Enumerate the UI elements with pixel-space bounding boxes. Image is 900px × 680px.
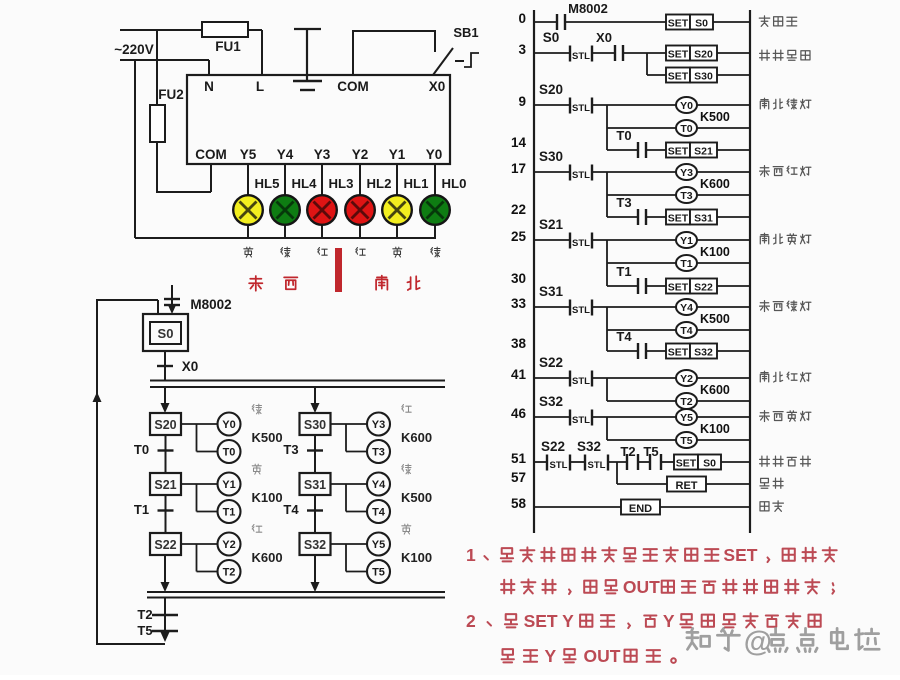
wire: HL1 lamp leads (396, 164, 398, 238)
svg-text:HL3: HL3 (329, 176, 354, 191)
value label K500 (700, 312, 730, 326)
STL contact S32 (merge) (570, 439, 608, 471)
node step number 0 (518, 11, 526, 26)
wire: ladder left power rail (533, 10, 535, 533)
lamp HL5 (233, 176, 279, 225)
lamp HL0 (420, 176, 466, 225)
svg-text:S32: S32 (694, 347, 713, 359)
svg-text:X0: X0 (182, 359, 199, 374)
net comment 东西黄灯 (760, 411, 811, 422)
pin L (256, 79, 264, 94)
svg-text:Y2: Y2 (680, 373, 693, 385)
svg-text:T1: T1 (680, 258, 692, 270)
coil Y2 (218, 533, 241, 556)
svg-text:Y: Y (545, 646, 557, 666)
svg-text:T4: T4 (680, 325, 692, 337)
svg-text:58: 58 (511, 496, 527, 511)
svg-text:S0: S0 (158, 326, 174, 341)
net comment 南北红灯 (760, 371, 811, 382)
svg-text:SET: SET (723, 545, 757, 565)
svg-text:K100: K100 (700, 422, 730, 436)
coil T5 (676, 432, 750, 448)
svg-text:M8002: M8002 (568, 1, 608, 16)
svg-text:T2: T2 (223, 567, 236, 579)
svg-text:X0: X0 (429, 79, 446, 94)
wire: branch for timer (607, 240, 676, 286)
svg-text:9: 9 (518, 94, 526, 109)
coil T2 (218, 560, 241, 583)
SET S32 instruction box (666, 344, 750, 359)
label South-North (376, 276, 387, 290)
wire: S31 action branch (331, 484, 368, 512)
svg-text:SET: SET (668, 213, 689, 225)
svg-text:K600: K600 (700, 177, 730, 191)
svg-text:25: 25 (511, 229, 527, 244)
svg-text:~220V: ~220V (114, 42, 153, 57)
svg-text:Y: Y (663, 611, 675, 631)
net comment 南北黄灯 (760, 233, 811, 244)
svg-text:Y0: Y0 (680, 100, 693, 112)
SET S22 instruction box (666, 279, 750, 294)
svg-text:S20: S20 (539, 82, 563, 97)
wire: branch to SET S30 (647, 53, 666, 75)
wire: branch to RET (617, 462, 667, 484)
svg-text:T2: T2 (680, 396, 692, 408)
red divider bar (335, 248, 342, 292)
transition T0 (134, 435, 174, 473)
END instruction box (534, 500, 750, 516)
wire: S30 action branch (331, 424, 368, 452)
transition X0 (157, 351, 198, 380)
value label 黄 (lamp colour) (244, 247, 253, 257)
svg-text:HL2: HL2 (367, 176, 392, 191)
node step number 33 (511, 296, 527, 311)
svg-text:S22: S22 (694, 282, 713, 294)
wire: branch from L1 down to fuse FU2 and to COM (157, 30, 211, 193)
contact T5 (638, 444, 674, 470)
note line 3 (488, 613, 821, 628)
note line 2 (501, 579, 834, 594)
svg-text:T5: T5 (137, 623, 152, 638)
junction: merge arrow to return loop (161, 632, 170, 642)
svg-text:STL: STL (572, 103, 590, 114)
value label 绿 (lamp colour) (431, 247, 440, 257)
svg-text:STL: STL (572, 376, 590, 387)
colour label (252, 464, 261, 474)
svg-text:STL: STL (572, 238, 590, 249)
svg-text:T5: T5 (643, 444, 658, 459)
svg-text:M8002: M8002 (190, 297, 231, 312)
value label K600 (700, 177, 730, 191)
svg-text:T1: T1 (134, 502, 149, 517)
svg-text:SET: SET (668, 282, 689, 294)
SET S31 instruction box (666, 210, 750, 225)
svg-text:Y4: Y4 (680, 302, 693, 314)
svg-text:Y0: Y0 (426, 147, 443, 162)
node step number 30 (511, 271, 526, 286)
svg-text:1: 1 (466, 545, 476, 565)
svg-text:HL0: HL0 (442, 176, 467, 191)
STL contact S0 (534, 30, 592, 62)
svg-text:Y2: Y2 (352, 147, 369, 162)
svg-text:SB1: SB1 (453, 25, 478, 40)
value label K500 (401, 490, 432, 505)
svg-text:Y0: Y0 (222, 419, 235, 431)
svg-text:Y1: Y1 (680, 235, 693, 247)
svg-text:S0: S0 (703, 458, 716, 470)
SET S30 instruction box (666, 68, 750, 83)
svg-text:SET: SET (668, 347, 689, 359)
transition T5 (merge) (137, 623, 178, 638)
value label K100 (700, 245, 730, 259)
svg-text:T3: T3 (283, 442, 298, 457)
svg-text:Y3: Y3 (314, 147, 331, 162)
coil T1 (218, 500, 241, 523)
contact M8002 (534, 1, 666, 30)
wire: HL5 lamp leads (247, 164, 249, 238)
node step number 14 (511, 135, 527, 150)
svg-text:S20: S20 (154, 418, 176, 432)
colour label (402, 524, 411, 534)
PLC main unit box (187, 75, 450, 164)
svg-text:K600: K600 (700, 383, 730, 397)
svg-text:S0: S0 (695, 18, 708, 30)
wire: branch for timer (607, 417, 676, 440)
svg-text:K600: K600 (401, 430, 432, 445)
svg-text:3: 3 (518, 42, 526, 57)
net comment 东西红灯 (760, 166, 811, 177)
pin N (204, 79, 214, 94)
svg-text:OUT: OUT (584, 646, 621, 666)
node step number 46 (511, 406, 527, 421)
svg-text:SET: SET (668, 146, 689, 158)
node step number 41 (511, 367, 527, 382)
svg-text:K100: K100 (252, 490, 283, 505)
transition T4 (283, 495, 323, 533)
coil Y0 (676, 97, 750, 113)
node step number 38 (511, 336, 527, 351)
svg-text:S31: S31 (539, 284, 564, 299)
STL contact S31 (534, 284, 676, 316)
pin Y5 (240, 147, 257, 162)
label East-West (249, 276, 262, 291)
SET S21 instruction box (666, 143, 750, 158)
svg-text:S30: S30 (694, 71, 713, 83)
svg-text:Y4: Y4 (372, 479, 386, 491)
svg-text:Y1: Y1 (389, 147, 406, 162)
value label K100 (401, 550, 432, 565)
svg-text:51: 51 (511, 451, 527, 466)
svg-text:K500: K500 (252, 430, 283, 445)
svg-text:S30: S30 (539, 149, 563, 164)
contact T4 (607, 329, 666, 359)
colour label (402, 405, 411, 413)
colour label (252, 404, 261, 414)
STL contact S30 (534, 149, 676, 181)
fuse FU2 (150, 87, 184, 142)
coil T0 (218, 440, 241, 463)
net comment 东西绿灯 (760, 301, 811, 312)
svg-text:T5: T5 (372, 567, 385, 579)
svg-text:S31: S31 (694, 213, 713, 225)
svg-text:46: 46 (511, 406, 527, 421)
svg-text:T4: T4 (616, 329, 632, 344)
svg-text:S0: S0 (543, 30, 560, 45)
transition T3 (283, 435, 323, 473)
coil Y3 (676, 164, 750, 180)
colour label (402, 464, 411, 474)
svg-text:K500: K500 (700, 110, 730, 124)
svg-text:Y5: Y5 (372, 539, 385, 551)
wire: S22 action branch (181, 544, 218, 572)
svg-text:22: 22 (511, 202, 526, 217)
svg-text:X0: X0 (596, 30, 612, 45)
state S0 (initial step, double box) (143, 314, 188, 351)
svg-text:57: 57 (511, 470, 526, 485)
wire: branch to S20 (161, 387, 170, 413)
svg-text:STL: STL (572, 305, 590, 316)
node step number 51 (511, 451, 527, 466)
svg-text:K100: K100 (401, 550, 432, 565)
svg-text:OUT: OUT (623, 577, 660, 597)
STL contact S22 (534, 355, 676, 387)
svg-text:S22: S22 (541, 439, 565, 454)
coil Y1 (676, 232, 750, 248)
value label K600 (252, 550, 283, 565)
svg-text:T1: T1 (223, 507, 236, 519)
value label 黄 (lamp colour) (393, 247, 402, 257)
coil T0 (676, 120, 750, 136)
coil T3 (367, 440, 390, 463)
wire: COM to switch SB1 loop (353, 31, 435, 75)
svg-text:S21: S21 (694, 146, 713, 158)
coil Y5 (367, 533, 390, 556)
svg-text:SET: SET (676, 458, 697, 470)
pin Y3 (314, 147, 331, 162)
svg-text:STL: STL (588, 460, 606, 471)
svg-text:Y5: Y5 (680, 412, 693, 424)
svg-text:17: 17 (511, 161, 526, 176)
svg-text:L: L (256, 79, 264, 94)
wire: S20 action branch (181, 424, 218, 452)
svg-text:T2: T2 (620, 444, 635, 459)
STL contact S32 (534, 394, 676, 426)
parallel merge double line (bottom) (147, 592, 445, 598)
pin Y2 (352, 147, 369, 162)
contact T2 (608, 444, 638, 470)
pin X0 (429, 79, 446, 94)
coil T4 (367, 500, 390, 523)
svg-text:Y3: Y3 (680, 167, 693, 179)
svg-text:S30: S30 (304, 418, 326, 432)
watermark (687, 626, 879, 658)
svg-text:K500: K500 (700, 312, 730, 326)
wire: lamp common return bus (135, 60, 436, 238)
svg-text:T0: T0 (680, 123, 692, 135)
contact T3 (607, 195, 666, 225)
svg-text:T0: T0 (223, 447, 236, 459)
net comment 初始化 (759, 16, 796, 26)
svg-text:38: 38 (511, 336, 527, 351)
value label 红 (lamp colour) (318, 248, 327, 256)
state S31 (300, 473, 331, 495)
RET instruction box (667, 477, 750, 493)
contact X0 (592, 30, 666, 61)
net comment 返回 (760, 478, 783, 488)
colour label (252, 525, 262, 533)
STL contact S20 (534, 82, 676, 114)
fuse FU1 (202, 22, 248, 54)
svg-text:Y3: Y3 (372, 419, 385, 431)
wire: branch for timer (607, 378, 676, 401)
svg-text:STL: STL (572, 415, 590, 426)
ground symbol (293, 29, 322, 90)
svg-text:T3: T3 (372, 447, 385, 459)
svg-text:@: @ (744, 626, 772, 658)
coil Y5 (676, 409, 750, 425)
svg-text:S21: S21 (154, 478, 176, 492)
value label K100 (700, 422, 730, 436)
net comment 并行汇合 (760, 456, 811, 466)
svg-text:S32: S32 (577, 439, 601, 454)
svg-text:Y4: Y4 (277, 147, 294, 162)
svg-text:S32: S32 (539, 394, 563, 409)
SET S0 instruction box (merge) (674, 455, 750, 470)
svg-text:STL: STL (550, 460, 568, 471)
svg-text:FU2: FU2 (158, 87, 184, 102)
net comment 并行分支 (760, 50, 810, 60)
wire: HL2 lamp leads (359, 164, 361, 238)
state S30 (300, 413, 331, 435)
wire: branch to S30 (311, 387, 320, 413)
svg-text:COM: COM (195, 147, 227, 162)
coil T3 (676, 187, 750, 203)
wire: ladder right power rail (749, 10, 751, 533)
transition T1 (134, 495, 174, 533)
svg-text:T3: T3 (680, 190, 692, 202)
value label K600 (401, 430, 432, 445)
wire: AC neutral line L2 (120, 60, 209, 75)
svg-text:T2: T2 (137, 607, 152, 622)
coil T5 (367, 560, 390, 583)
svg-text:FU1: FU1 (215, 39, 241, 54)
node step number 57 (511, 470, 526, 485)
svg-text:33: 33 (511, 296, 527, 311)
svg-text:N: N (204, 79, 214, 94)
switch SB1 (pushbutton) (433, 25, 479, 75)
coil Y4 (676, 299, 750, 315)
svg-text:COM: COM (337, 79, 369, 94)
svg-text:T0: T0 (616, 128, 631, 143)
state S32 (300, 533, 331, 555)
svg-text:41: 41 (511, 367, 527, 382)
svg-text:S22: S22 (539, 355, 563, 370)
wire: HL3 lamp leads (321, 164, 323, 238)
node step number 58 (511, 496, 527, 511)
coil T2 (676, 393, 750, 409)
wire: S21 action branch (181, 484, 218, 512)
svg-text:T4: T4 (283, 502, 299, 517)
contact T1 (607, 264, 666, 294)
svg-text:S22: S22 (154, 538, 176, 552)
svg-text:0: 0 (518, 11, 526, 26)
svg-text:HL1: HL1 (404, 176, 429, 191)
svg-text:K100: K100 (700, 245, 730, 259)
STL contact S22 (merge) (534, 439, 570, 471)
value label K100 (252, 490, 283, 505)
pin Y0 (426, 147, 443, 162)
svg-text:HL5: HL5 (255, 176, 280, 191)
svg-text:T4: T4 (372, 507, 386, 519)
svg-text:STL: STL (572, 51, 590, 62)
SET S0 instruction box (666, 15, 750, 30)
wire: S32 to merge (311, 555, 320, 592)
pin COM (input common) (337, 79, 369, 94)
svg-text:S31: S31 (304, 478, 326, 492)
svg-text:14: 14 (511, 135, 527, 150)
value label K600 (700, 383, 730, 397)
coil Y0 (218, 413, 241, 436)
state S21 (150, 473, 181, 495)
coil T1 (676, 255, 750, 271)
svg-text:T1: T1 (616, 264, 631, 279)
value label 绿 (lamp colour) (281, 247, 290, 257)
node ~220V supply label (114, 42, 153, 57)
svg-text:Y5: Y5 (240, 147, 257, 162)
svg-text:Y1: Y1 (222, 479, 235, 491)
net comment 南北绿灯 (760, 98, 811, 109)
svg-text:2: 2 (466, 611, 476, 631)
svg-text:SET: SET (668, 49, 689, 61)
note line 1 (484, 547, 836, 562)
note line 4 (502, 649, 676, 663)
junction: return loop up-arrow (93, 392, 102, 402)
state S20 (150, 413, 181, 435)
pin COM (output common, bottom) (195, 147, 227, 162)
svg-text:END: END (629, 503, 652, 515)
pin Y4 (277, 147, 294, 162)
node step number 25 (511, 229, 527, 244)
svg-text:STL: STL (572, 170, 590, 181)
transition M8002 (initial pulse) (164, 285, 232, 314)
STL contact S21 (534, 217, 676, 249)
lamp HL1 (382, 176, 428, 225)
svg-text:HL4: HL4 (292, 176, 318, 191)
svg-text:SET: SET (668, 18, 689, 30)
wire: S22 to merge (161, 555, 170, 592)
coil Y1 (218, 473, 241, 496)
svg-text:RET: RET (676, 480, 698, 492)
wire: AC live line L1 top (120, 30, 262, 75)
value label K500 (700, 110, 730, 124)
svg-text:T3: T3 (616, 195, 631, 210)
coil Y4 (367, 473, 390, 496)
wire: HL0 lamp leads (434, 164, 436, 238)
svg-text:T0: T0 (134, 442, 149, 457)
node step number 17 (511, 161, 526, 176)
coil Y2 (676, 370, 750, 386)
node step number 3 (518, 42, 526, 57)
value label K500 (252, 430, 283, 445)
state S22 (150, 533, 181, 555)
svg-text:T5: T5 (680, 435, 692, 447)
transition T2 (merge) (137, 598, 178, 637)
node step number 9 (518, 94, 526, 109)
coil Y3 (367, 413, 390, 436)
value label 红 (lamp colour) (356, 248, 365, 256)
lamp HL3 (307, 176, 353, 225)
svg-text:K600: K600 (252, 550, 283, 565)
